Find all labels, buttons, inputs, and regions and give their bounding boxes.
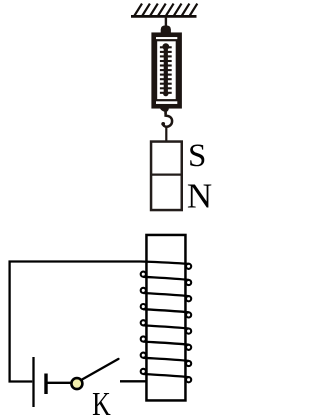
coil turn 5 left ear [141, 320, 146, 325]
spring scale bottom stem [160, 108, 169, 113]
spring top cap [162, 43, 169, 50]
switch K lever [82, 359, 119, 380]
string from hook to magnet [165, 126, 167, 141]
coil turn 3 left ear [141, 288, 146, 293]
coil turn 5 front crossing [143, 325, 188, 328]
coil turn 6 right ear [186, 345, 191, 350]
coil turn 6 front crossing [143, 342, 188, 345]
battery negative plate (short) [44, 374, 47, 395]
coil turn 3 right ear [186, 296, 191, 301]
wire: top + left + bottom-left run [10, 262, 141, 382]
spring coil teeth [160, 47, 172, 93]
svg-text:K: K [92, 386, 111, 419]
coil turn 2 right ear [186, 280, 191, 285]
coil turn 7 front crossing [143, 358, 188, 361]
iron core of electromagnet [146, 235, 185, 401]
spring scale outer body [154, 35, 180, 107]
spring bottom cap [163, 91, 168, 96]
coil turn 8 right ear [186, 377, 191, 382]
wire battery to switch [46, 382, 72, 384]
spring scale top knob [161, 25, 171, 32]
coil turn 7 right ear [186, 361, 191, 366]
magnet pole divider [150, 174, 182, 176]
coil turn 4 left ear [141, 304, 146, 309]
coil turn 4 front crossing [143, 309, 188, 312]
string from ceiling to spring scale [165, 17, 167, 27]
coil turn 8 front crossing [143, 374, 188, 377]
spring scale window frame [156, 40, 177, 100]
hook ball tip [161, 122, 165, 126]
coil turn 1 right ear [186, 264, 191, 269]
coil turn 4 right ear [186, 312, 191, 317]
bar magnet body [151, 142, 182, 211]
coil turn 6 left ear [141, 336, 146, 341]
coil turn 2 front crossing [143, 277, 188, 280]
coil turn 5 right ear [186, 329, 191, 334]
coil turn 2 left ear [141, 272, 146, 277]
switch K pivot [71, 378, 82, 389]
coil turn 3 front crossing [143, 293, 188, 296]
battery positive plate (long) [32, 357, 34, 407]
svg-text:S: S [188, 138, 206, 174]
coil turn 7 left ear [141, 353, 146, 358]
coil turn 8 left ear [141, 369, 146, 374]
svg-text:N: N [187, 177, 212, 216]
hook of spring scale [163, 113, 172, 127]
ceiling support hatching [135, 4, 198, 16]
wire switch to coil [120, 380, 147, 382]
spring rod inside scale [164, 45, 168, 96]
coil turn 1 front crossing [141, 262, 189, 264]
ceiling line [131, 15, 197, 18]
